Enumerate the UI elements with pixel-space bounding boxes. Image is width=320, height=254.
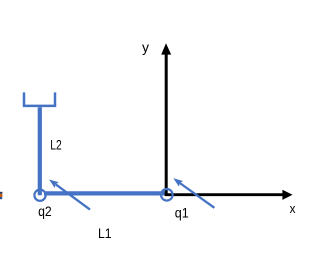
svg-text:q1: q1 [175, 205, 189, 221]
bracket at top of rod L2 [24, 92, 55, 106]
clipped text fragment at left edge [0, 192, 2, 199]
force arrow at q2 shaft [56, 184, 90, 209]
force arrow at q1 shaft [180, 183, 215, 208]
svg-text:y: y [142, 39, 149, 55]
y-axis shaft [165, 54, 168, 196]
rod L2 (vertical blue wire) [38, 107, 42, 195]
svg-text:x: x [290, 202, 296, 216]
x-axis arrowhead [282, 190, 292, 200]
charge q2 circle [34, 190, 45, 201]
svg-text:L1: L1 [98, 225, 112, 241]
force arrow at q1 head [173, 178, 183, 186]
x-axis shaft [165, 193, 283, 196]
svg-text:L2: L2 [50, 137, 62, 153]
y-axis arrowhead [161, 43, 171, 54]
charge q1 circle [161, 189, 173, 201]
svg-text:q2: q2 [38, 203, 52, 219]
force arrow at q2 head [49, 180, 59, 188]
rod L1 (horizontal blue wire) [44, 191, 167, 195]
